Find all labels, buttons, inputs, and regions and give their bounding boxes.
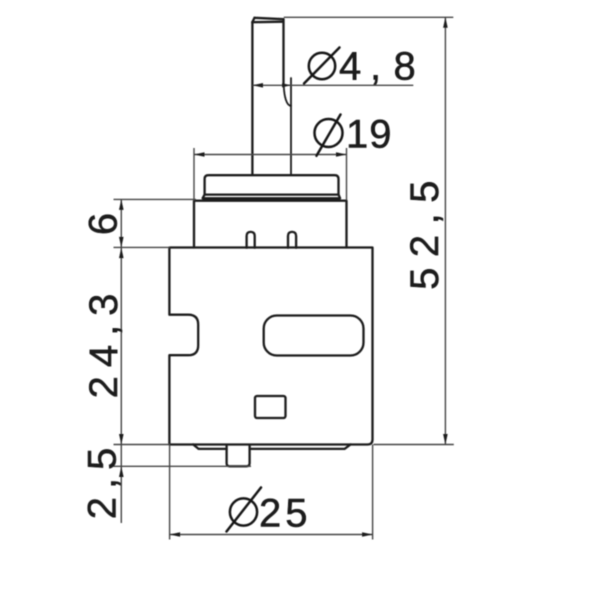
svg-text:,: , — [370, 45, 381, 89]
svg-text:2,5: 2,5 — [81, 440, 125, 520]
svg-text:24,3: 24,3 — [82, 285, 126, 399]
svg-text:19: 19 — [346, 113, 393, 157]
svg-text:8: 8 — [394, 45, 416, 89]
svg-text:6: 6 — [82, 213, 126, 235]
svg-text:52,5: 52,5 — [403, 170, 447, 290]
svg-text:25: 25 — [259, 492, 312, 536]
svg-text:4: 4 — [339, 45, 361, 89]
